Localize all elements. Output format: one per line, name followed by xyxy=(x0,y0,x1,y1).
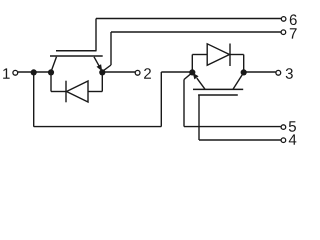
transistor Q2 emitter arrowhead xyxy=(193,73,199,80)
wire aux emitter1 line to terminal 7 xyxy=(111,31,281,33)
terminal 7 circle xyxy=(281,30,286,35)
wire aux emitter1 riser xyxy=(110,32,112,65)
transistor Q1 channel bar xyxy=(50,55,103,57)
wire node E to terminal 3 xyxy=(244,71,276,73)
transistor Q1 emitter leg xyxy=(94,57,101,69)
diode D2 right leg down to collector node xyxy=(243,55,245,73)
diode D1 left leg down from node B xyxy=(50,72,52,92)
diode D1 right leg up to node C xyxy=(101,72,103,92)
wire bottom loop riser xyxy=(160,72,162,127)
transistor Q1 emitter arrowhead xyxy=(97,64,103,71)
terminal 2 circle xyxy=(135,70,140,75)
terminal 7 label xyxy=(290,28,297,38)
junction dot E (collector Q2) xyxy=(241,69,247,75)
wire Q2 gate lead down xyxy=(198,95,200,140)
wire aux emitter2 diagonal from node D xyxy=(184,73,192,80)
terminal 2 label xyxy=(144,68,151,78)
terminal 3 label xyxy=(286,68,293,79)
transistor Q1 gate bar xyxy=(56,50,97,52)
wire D2 cathode lead xyxy=(230,54,244,56)
wire gate1 line to terminal 6 xyxy=(96,18,281,20)
junction dot D (emitter Q2) xyxy=(189,69,195,75)
transistor Q2 channel bar xyxy=(193,88,243,90)
junction dot B (collector Q1 / anode leg D1) xyxy=(48,69,54,75)
diode D2 triangle xyxy=(207,44,229,66)
transistor Q1 collector leg xyxy=(51,57,56,71)
wire D1 cathode lead xyxy=(51,91,66,93)
transistor Q2 gate bar xyxy=(198,94,238,96)
terminal 4 label xyxy=(289,134,297,144)
diode D2 cathode bar xyxy=(229,44,231,67)
terminal 1 label xyxy=(3,68,9,78)
terminal 5 label xyxy=(289,121,296,131)
diode D2 left leg up from emitter node of Q2 xyxy=(191,55,193,73)
diode D1 triangle xyxy=(67,81,89,102)
wire node A down xyxy=(33,72,35,127)
wire riser to emitter node of Q2 xyxy=(161,71,192,73)
wire D2 anode lead xyxy=(192,54,207,56)
terminal 5 circle xyxy=(281,125,286,130)
wire aux emitter1 diagonal from node C xyxy=(103,65,112,71)
wire node C to terminal 2 xyxy=(102,71,135,73)
wire terminal1 to node E2C1 xyxy=(18,71,51,73)
wire D1 anode lead xyxy=(88,91,102,93)
transistor Q2 collector leg xyxy=(233,73,244,89)
terminal 6 circle xyxy=(281,17,286,22)
wire bottom loop horizontal xyxy=(34,126,162,128)
transistor Q2 emitter leg xyxy=(197,78,205,89)
wire gate2 line to terminal 4 xyxy=(199,139,281,141)
terminal 6 label xyxy=(290,14,297,25)
terminal 3 circle xyxy=(276,70,281,75)
terminal 1 circle xyxy=(13,70,18,75)
terminal 4 circle xyxy=(281,138,286,143)
diode D1 cathode bar xyxy=(65,81,67,103)
junction dot C (emitter Q1) xyxy=(99,69,105,75)
wire aux emitter2 line to terminal 5 xyxy=(184,126,281,128)
junction dot A (node to bottom loop) xyxy=(31,69,37,75)
wire aux emitter2 riser xyxy=(183,80,185,127)
wire Q1 gate lead up xyxy=(95,19,97,51)
